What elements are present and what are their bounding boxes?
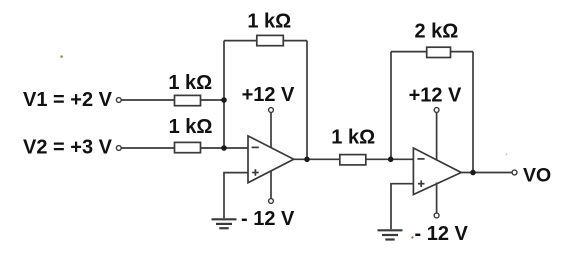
svg-text:1 kΩ: 1 kΩ — [247, 11, 291, 33]
svg-text:1 kΩ: 1 kΩ — [331, 127, 375, 149]
svg-text:+12 V: +12 V — [242, 84, 295, 106]
svg-text:V1 = +2 V: V1 = +2 V — [23, 89, 113, 111]
svg-text:- 12 V: - 12 V — [241, 208, 295, 230]
svg-text:VO: VO — [523, 164, 551, 186]
svg-text:1 kΩ: 1 kΩ — [169, 116, 213, 138]
svg-text:1 kΩ: 1 kΩ — [168, 72, 212, 94]
svg-text:V2 = +3 V: V2 = +3 V — [23, 136, 113, 158]
svg-text:2 kΩ: 2 kΩ — [414, 20, 458, 42]
svg-text:+12 V: +12 V — [409, 84, 462, 106]
svg-text:- 12 V: - 12 V — [415, 223, 469, 245]
